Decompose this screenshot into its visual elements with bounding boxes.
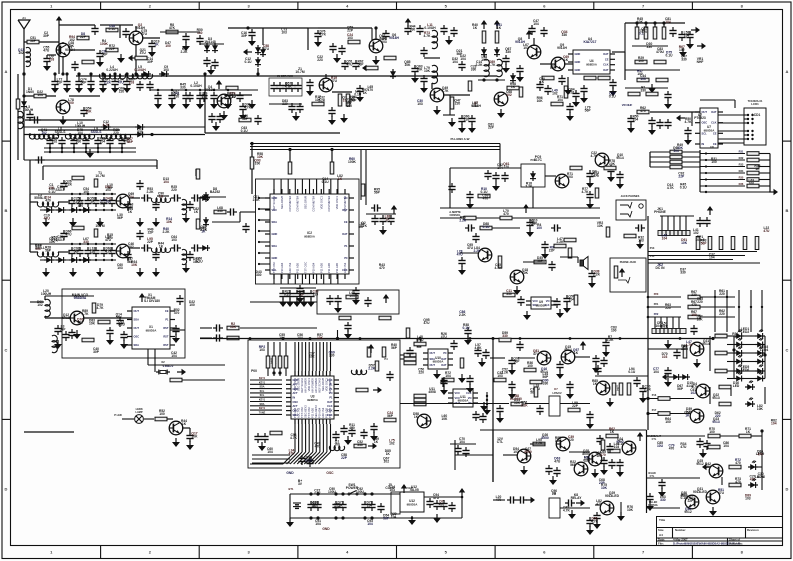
- svg-text:56P: 56P: [391, 346, 398, 350]
- svg-text:47U: 47U: [533, 352, 540, 356]
- svg-text:220: 220: [665, 306, 671, 310]
- svg-text:47U: 47U: [467, 246, 474, 250]
- svg-text:1K: 1K: [540, 80, 545, 84]
- svg-text:104: 104: [37, 93, 43, 97]
- svg-text:TST OSC: TST OSC: [307, 407, 311, 418]
- svg-text:104: 104: [459, 440, 465, 444]
- svg-text:AIN POWER: AIN POWER: [311, 378, 315, 393]
- svg-text:1K: 1K: [159, 245, 164, 249]
- svg-text:10K: 10K: [257, 155, 264, 159]
- svg-text:0.1U: 0.1U: [322, 180, 330, 184]
- svg-text:GND: GND: [575, 60, 581, 64]
- svg-text:102: 102: [309, 355, 315, 359]
- svg-text:220: 220: [313, 293, 319, 297]
- svg-text:0.10UH: 0.10UH: [134, 68, 146, 72]
- svg-text:1K: 1K: [311, 504, 316, 508]
- svg-text:Title: Title: [659, 518, 665, 522]
- svg-text:4.7K: 4.7K: [314, 491, 322, 495]
- svg-text:AIN POWER: AIN POWER: [328, 378, 332, 393]
- svg-text:KEY SCAN2: KEY SCAN2: [272, 195, 276, 210]
- svg-text:P11 AD5: P11 AD5: [311, 407, 315, 418]
- svg-text:R33: R33: [739, 163, 744, 167]
- svg-text:102: 102: [523, 46, 529, 50]
- svg-text:2.2K: 2.2K: [181, 50, 189, 54]
- svg-text:9B8D5A: 9B8D5A: [74, 296, 87, 300]
- svg-text:56P: 56P: [116, 316, 123, 320]
- svg-text:47U: 47U: [763, 229, 770, 233]
- svg-text:C: C: [786, 347, 789, 352]
- svg-text:1K: 1K: [159, 195, 164, 199]
- svg-text:102: 102: [18, 51, 24, 55]
- svg-text:KEY1: KEY1: [259, 381, 266, 384]
- svg-text:56P: 56P: [30, 39, 37, 43]
- svg-text:4.7K: 4.7K: [667, 186, 675, 190]
- svg-text:0.1U: 0.1U: [241, 129, 249, 133]
- svg-text:P14: P14: [650, 254, 655, 258]
- svg-text:4.7K: 4.7K: [582, 190, 590, 194]
- svg-text:X2: X2: [161, 360, 165, 364]
- svg-text:P22: P22: [654, 312, 659, 316]
- svg-text:47U: 47U: [44, 216, 51, 220]
- svg-text:104: 104: [267, 450, 273, 454]
- svg-text:2.2K: 2.2K: [163, 230, 171, 234]
- svg-text:102: 102: [37, 303, 43, 307]
- svg-text:0.1U: 0.1U: [680, 185, 688, 189]
- svg-text:D: D: [786, 486, 789, 491]
- svg-text:104: 104: [171, 354, 177, 358]
- svg-text:0.1U: 0.1U: [483, 225, 491, 229]
- svg-text:2.2K: 2.2K: [593, 273, 601, 277]
- svg-text:1K: 1K: [746, 430, 751, 434]
- svg-text:OUT: OUT: [430, 363, 436, 367]
- svg-text:4.7K: 4.7K: [424, 34, 432, 38]
- svg-text:22P: 22P: [584, 458, 591, 462]
- svg-text:C: C: [5, 347, 8, 352]
- svg-text:1K: 1K: [755, 167, 760, 171]
- svg-text:100: 100: [255, 162, 261, 166]
- svg-text:47U: 47U: [457, 252, 464, 256]
- svg-text:330: 330: [562, 33, 568, 37]
- svg-text:2.2K: 2.2K: [607, 338, 615, 342]
- svg-text:P0: P0: [443, 351, 447, 355]
- svg-text:10K: 10K: [609, 162, 616, 166]
- svg-text:1K: 1K: [610, 430, 615, 434]
- svg-text:PLL9090 A.W: PLL9090 A.W: [451, 137, 470, 141]
- svg-text:9018H: 9018H: [135, 26, 145, 30]
- svg-text:10K: 10K: [404, 63, 411, 67]
- svg-text:SDA: SDA: [272, 244, 278, 248]
- svg-text:KIA7217: KIA7217: [583, 40, 596, 44]
- svg-text:100: 100: [638, 59, 644, 63]
- svg-text:IN: IN: [293, 396, 296, 400]
- svg-text:104: 104: [557, 98, 563, 102]
- svg-text:OUT: OUT: [134, 326, 140, 330]
- svg-text:56P: 56P: [677, 387, 684, 391]
- svg-text:56P: 56P: [81, 81, 88, 85]
- svg-text:220: 220: [715, 414, 721, 418]
- svg-text:47K: 47K: [169, 26, 176, 30]
- svg-text:9013H: 9013H: [515, 40, 525, 44]
- svg-text:470: 470: [349, 426, 355, 430]
- svg-text:10K: 10K: [627, 508, 634, 512]
- svg-text:SSSLS: SSSLS: [91, 130, 103, 134]
- svg-text:103: 103: [417, 102, 423, 106]
- svg-text:CLK: CLK: [711, 121, 716, 125]
- svg-text:102: 102: [389, 442, 395, 446]
- svg-text:NHF: NHF: [697, 60, 704, 64]
- svg-text:LAMP: LAMP: [135, 411, 142, 414]
- svg-text:P11 AD5: P11 AD5: [328, 407, 332, 418]
- svg-text:10K: 10K: [230, 325, 237, 329]
- svg-text:1N60: 1N60: [26, 90, 34, 94]
- svg-text:8050: 8050: [524, 450, 532, 454]
- svg-text:P1: P1: [329, 396, 333, 400]
- svg-text:0.22UH: 0.22UH: [106, 68, 118, 72]
- svg-text:CE: CE: [344, 220, 348, 224]
- svg-text:103: 103: [567, 175, 573, 179]
- svg-text:SSSLS: SSSLS: [55, 130, 67, 134]
- svg-text:10.7M: 10.7M: [95, 224, 104, 228]
- svg-text:470: 470: [691, 303, 697, 307]
- svg-text:100K: 100K: [348, 160, 357, 164]
- svg-text:TST OSC: TST OSC: [272, 262, 276, 273]
- svg-text:470: 470: [757, 452, 763, 456]
- svg-text:Number: Number: [675, 528, 686, 532]
- svg-text:1U: 1U: [552, 492, 557, 496]
- svg-text:1K: 1K: [497, 26, 502, 30]
- svg-text:AIN POWER: AIN POWER: [314, 378, 318, 393]
- svg-text:AFT: AFT: [293, 404, 298, 408]
- svg-text:10K: 10K: [681, 241, 688, 245]
- svg-text:22P: 22P: [147, 240, 154, 244]
- svg-text:47U: 47U: [331, 79, 338, 83]
- svg-text:Size: Size: [658, 528, 664, 532]
- svg-text:SEG DRV8: SEG DRV8: [321, 377, 325, 391]
- svg-text:SEG KEY2: SEG KEY2: [304, 405, 308, 418]
- svg-text:30P: 30P: [241, 34, 248, 38]
- svg-text:1K: 1K: [201, 230, 206, 234]
- svg-text:10K: 10K: [317, 336, 324, 340]
- svg-text:CE: CE: [605, 57, 609, 61]
- svg-text:9014: 9014: [564, 348, 572, 352]
- svg-text:0.1U: 0.1U: [609, 95, 617, 99]
- svg-text:ADC IN3: ADC IN3: [297, 407, 301, 418]
- svg-text:330UH: 330UH: [23, 108, 34, 112]
- svg-text:P4: P4: [384, 357, 388, 361]
- svg-text:22P: 22P: [687, 499, 694, 503]
- svg-text:103: 103: [614, 445, 620, 449]
- svg-text:P11 AD5: P11 AD5: [327, 262, 331, 273]
- svg-text:220: 220: [568, 438, 574, 442]
- svg-text:1K: 1K: [386, 452, 391, 456]
- svg-text:BT1: BT1: [289, 487, 294, 491]
- svg-text:103: 103: [281, 31, 287, 35]
- svg-text:1N4148: 1N4148: [204, 40, 216, 44]
- svg-text:330: 330: [76, 140, 82, 144]
- svg-text:GND: GND: [272, 256, 278, 260]
- svg-text:47U: 47U: [141, 32, 148, 36]
- svg-text:BA252: BA252: [210, 190, 220, 194]
- svg-text:GND: GND: [575, 68, 581, 72]
- svg-text:56P: 56P: [117, 216, 124, 220]
- svg-text:4.7K: 4.7K: [591, 520, 599, 524]
- svg-text:56P: 56P: [542, 375, 549, 379]
- svg-text:P21: P21: [654, 302, 659, 306]
- svg-text:2.2K: 2.2K: [253, 198, 261, 202]
- svg-text:2.2K: 2.2K: [661, 324, 669, 328]
- svg-text:56P: 56P: [514, 360, 521, 364]
- svg-text:102: 102: [77, 320, 83, 324]
- svg-text:104: 104: [569, 298, 575, 302]
- svg-text:10K: 10K: [677, 146, 684, 150]
- svg-text:GND: GND: [272, 232, 278, 236]
- svg-text:PT6523: PT6523: [694, 116, 706, 120]
- svg-text:220: 220: [418, 370, 424, 374]
- svg-text:100U: 100U: [328, 490, 337, 494]
- svg-text:DAT: DAT: [327, 400, 333, 404]
- svg-text:817C: 817C: [534, 158, 543, 162]
- svg-text:4.7K: 4.7K: [685, 120, 693, 124]
- svg-text:JACK PHONES: JACK PHONES: [621, 194, 640, 198]
- svg-text:2.2K: 2.2K: [476, 63, 484, 67]
- svg-text:100: 100: [527, 364, 533, 368]
- svg-text:SDA: SDA: [272, 220, 278, 224]
- svg-text:10K: 10K: [48, 186, 55, 190]
- svg-text:220: 220: [504, 165, 510, 169]
- svg-text:100: 100: [611, 329, 617, 333]
- svg-text:DAT: DAT: [603, 52, 609, 56]
- svg-text:R31: R31: [739, 150, 744, 154]
- svg-text:103: 103: [259, 348, 265, 352]
- svg-text:VDD OSC1: VDD OSC1: [307, 377, 311, 391]
- svg-text:10K: 10K: [166, 220, 173, 224]
- svg-text:103: 103: [638, 239, 644, 243]
- svg-text:9012: 9012: [696, 462, 704, 466]
- svg-text:0.1U: 0.1U: [109, 27, 117, 31]
- svg-text:P20: P20: [654, 292, 659, 296]
- svg-text:DAT: DAT: [711, 110, 717, 114]
- svg-text:56P: 56P: [45, 249, 52, 253]
- svg-text:1K: 1K: [593, 382, 598, 386]
- svg-text:FM/AM: FM/AM: [145, 296, 156, 300]
- svg-text:VDD OSC1: VDD OSC1: [325, 377, 329, 391]
- svg-text:1K: 1K: [194, 210, 199, 214]
- svg-text:A1: A1: [22, 16, 26, 20]
- svg-text:100: 100: [709, 430, 715, 434]
- svg-text:103: 103: [640, 77, 646, 81]
- svg-text:P17: P17: [652, 409, 657, 412]
- svg-text:0.1U: 0.1U: [628, 370, 636, 374]
- svg-text:KEY1: KEY1: [259, 399, 266, 402]
- svg-text:2.2K: 2.2K: [147, 190, 155, 194]
- svg-text:10K: 10K: [637, 20, 644, 24]
- svg-text:9B8D5A: 9B8D5A: [146, 329, 157, 333]
- svg-text:R35: R35: [739, 176, 744, 180]
- svg-text:47U: 47U: [65, 233, 72, 237]
- svg-text:104: 104: [297, 336, 303, 340]
- svg-text:2.2K: 2.2K: [557, 240, 565, 244]
- svg-text:47U: 47U: [43, 49, 50, 53]
- svg-text:100U: 100U: [356, 490, 365, 494]
- svg-text:CTL: CTL: [497, 440, 503, 444]
- svg-text:56P: 56P: [374, 191, 381, 195]
- svg-text:220: 220: [171, 188, 177, 192]
- svg-text:470: 470: [483, 197, 489, 201]
- svg-text:4.7K: 4.7K: [51, 239, 59, 243]
- svg-text:223: 223: [317, 58, 323, 62]
- svg-text:PHONE: PHONE: [654, 210, 667, 214]
- svg-text:22P: 22P: [678, 174, 685, 178]
- svg-text:470: 470: [642, 30, 648, 34]
- svg-text:LED: LED: [733, 384, 740, 388]
- svg-text:0.1U: 0.1U: [49, 190, 57, 194]
- svg-text:220: 220: [719, 312, 725, 316]
- svg-text:4.7K: 4.7K: [82, 312, 90, 316]
- svg-text:22P: 22P: [599, 481, 606, 485]
- svg-text:470: 470: [45, 199, 51, 203]
- svg-text:SCL: SCL: [260, 394, 265, 397]
- svg-text:470: 470: [503, 212, 509, 216]
- svg-text:IN: IN: [702, 142, 705, 146]
- svg-text:LED2: LED2: [741, 330, 750, 334]
- svg-text:102: 102: [69, 38, 75, 42]
- svg-text:10K: 10K: [757, 407, 764, 411]
- svg-text:SDA: SDA: [134, 343, 140, 347]
- svg-text:0.1U: 0.1U: [305, 458, 313, 462]
- svg-text:LCD1: LCD1: [752, 113, 761, 117]
- svg-text:22P: 22P: [549, 249, 556, 253]
- svg-text:470: 470: [593, 174, 599, 178]
- svg-text:KEY1: KEY1: [259, 407, 266, 410]
- svg-text:P11 AD5: P11 AD5: [296, 262, 300, 273]
- svg-text:330: 330: [543, 382, 549, 386]
- svg-text:RELAY: RELAY: [571, 496, 583, 500]
- svg-text:2.2K: 2.2K: [104, 81, 112, 85]
- svg-text:COM MUTE4: COM MUTE4: [296, 195, 300, 211]
- svg-text:103: 103: [171, 238, 177, 242]
- svg-text:330: 330: [471, 68, 477, 72]
- svg-text:100: 100: [68, 101, 74, 105]
- svg-text:1K: 1K: [685, 414, 690, 418]
- svg-text:104: 104: [391, 515, 397, 519]
- svg-text:P1: P1: [165, 318, 169, 322]
- svg-text:22P: 22P: [572, 404, 579, 408]
- svg-text:4.7K: 4.7K: [319, 33, 327, 37]
- svg-text:330: 330: [660, 498, 666, 502]
- svg-text:1K: 1K: [511, 85, 516, 89]
- svg-text:100: 100: [711, 160, 717, 164]
- svg-text:1K: 1K: [473, 26, 478, 30]
- svg-text:220: 220: [119, 89, 125, 93]
- svg-text:1K: 1K: [574, 351, 579, 355]
- svg-text:330: 330: [681, 57, 687, 61]
- svg-text:10K: 10K: [514, 401, 521, 405]
- svg-text:9018H: 9018H: [389, 36, 399, 40]
- svg-text:10.7M: 10.7M: [95, 174, 104, 178]
- svg-text:1K: 1K: [414, 415, 419, 419]
- svg-text:10K: 10K: [191, 435, 198, 439]
- svg-text:TST OSC: TST OSC: [304, 262, 308, 273]
- svg-text:10K: 10K: [597, 224, 604, 228]
- svg-text:104: 104: [77, 131, 83, 135]
- svg-text:102: 102: [693, 231, 699, 235]
- svg-text:100: 100: [189, 303, 195, 307]
- svg-text:470: 470: [640, 109, 646, 113]
- svg-text:OUT: OUT: [134, 309, 140, 313]
- svg-text:4.7K: 4.7K: [103, 123, 111, 127]
- svg-text:9018: 9018: [62, 316, 70, 320]
- svg-text:CE: CE: [165, 309, 169, 313]
- svg-text:RST: RST: [163, 326, 169, 330]
- svg-text:330: 330: [506, 292, 512, 296]
- svg-text:1K: 1K: [564, 58, 569, 62]
- svg-text:22P: 22P: [529, 222, 536, 226]
- svg-text:220: 220: [719, 292, 725, 296]
- svg-text:GND: GND: [322, 527, 330, 531]
- svg-text:10K: 10K: [131, 263, 138, 267]
- svg-text:10K: 10K: [481, 58, 488, 62]
- svg-text:10K: 10K: [424, 69, 431, 73]
- svg-text:9014LED: 9014LED: [693, 490, 708, 494]
- svg-text:KEY1: KEY1: [259, 377, 266, 380]
- svg-text:22P: 22P: [341, 456, 348, 460]
- svg-text:56P: 56P: [585, 109, 592, 113]
- svg-text:SEG DRV8: SEG DRV8: [297, 377, 301, 391]
- svg-text:56P: 56P: [383, 517, 390, 521]
- svg-text:470: 470: [735, 480, 741, 484]
- svg-text:104: 104: [315, 522, 321, 526]
- svg-text:330: 330: [640, 88, 646, 92]
- svg-text:56P: 56P: [242, 117, 249, 121]
- svg-text:10K: 10K: [601, 486, 608, 490]
- svg-text:104: 104: [452, 60, 458, 64]
- svg-text:47U: 47U: [718, 491, 725, 495]
- svg-text:56P: 56P: [379, 37, 386, 41]
- svg-text:TST OSC: TST OSC: [300, 407, 304, 418]
- svg-text:P11 AD5: P11 AD5: [335, 262, 339, 273]
- svg-text:104: 104: [472, 104, 478, 108]
- svg-text:100: 100: [159, 412, 165, 416]
- svg-text:470: 470: [78, 204, 84, 208]
- svg-text:5555LS: 5555LS: [34, 196, 46, 200]
- svg-text:P10 AD4: P10 AD4: [293, 407, 297, 418]
- svg-text:4.7K: 4.7K: [442, 89, 450, 93]
- svg-text:470: 470: [750, 478, 756, 482]
- svg-text:OSC: OSC: [326, 471, 334, 475]
- svg-text:10K: 10K: [89, 321, 96, 325]
- svg-text:2.2K: 2.2K: [368, 367, 376, 371]
- svg-text:2.2K: 2.2K: [65, 183, 73, 187]
- svg-text:2.2K: 2.2K: [525, 184, 533, 188]
- svg-text:470: 470: [368, 88, 374, 92]
- svg-text:2.2K: 2.2K: [318, 98, 326, 102]
- svg-text:VDD OSC1: VDD OSC1: [335, 195, 339, 209]
- svg-text:9B8D5A: 9B8D5A: [586, 63, 597, 67]
- svg-text:102: 102: [679, 48, 685, 52]
- svg-text:56P: 56P: [334, 506, 341, 510]
- svg-text:9014: 9014: [702, 342, 710, 346]
- svg-text:B: B: [786, 208, 789, 213]
- svg-text:56P: 56P: [550, 66, 557, 70]
- svg-text:100: 100: [637, 72, 643, 76]
- svg-text:DAT: DAT: [603, 68, 609, 72]
- svg-text:SEG DRV8: SEG DRV8: [280, 195, 284, 209]
- svg-text:1K: 1K: [733, 335, 738, 339]
- svg-text:10K: 10K: [441, 417, 448, 421]
- svg-text:102: 102: [41, 131, 47, 135]
- svg-text:9B8D5A: 9B8D5A: [407, 503, 418, 507]
- svg-text:P11 AD5: P11 AD5: [325, 407, 329, 418]
